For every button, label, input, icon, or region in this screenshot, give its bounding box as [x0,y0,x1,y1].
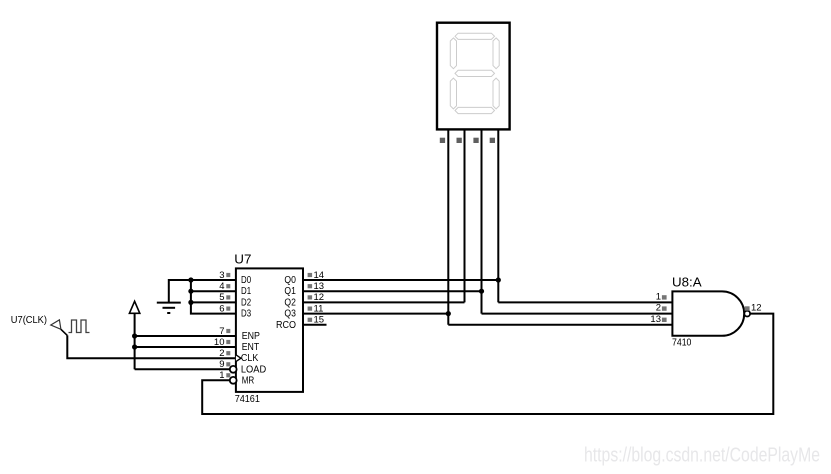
ground [157,303,181,313]
svg-text:5: 5 [219,292,224,303]
svg-text:13: 13 [650,314,661,325]
junction D2 [188,300,193,305]
wire RCO stub pin 15 [303,324,327,326]
U7 pin square 1 [226,373,230,377]
svg-text:12: 12 [314,292,325,303]
svg-text:U7(CLK): U7(CLK) [11,315,47,326]
wire Q1 horizontal from U7 pin 13 [303,290,482,292]
svg-text:ENP: ENP [242,331,260,342]
display segment b [493,38,499,69]
wire Q3 to U8 pin 13 [448,324,672,326]
U7 MR bubble [230,377,237,384]
U7 pin square 5 [226,295,230,299]
svg-text:3: 3 [219,270,224,281]
display segment f [450,38,456,69]
svg-text:ENT: ENT [242,342,260,353]
wire D0 to ground [169,280,236,303]
U8 pin square 1 [662,295,667,299]
svg-text:1: 1 [219,370,224,381]
wire MR feedback from U8 output [202,314,773,414]
wire Q0 vertical to display [497,129,499,302]
wire Q1 to U8 pin 2 [482,313,673,315]
svg-text:13: 13 [314,281,325,292]
IC U7 body [236,268,303,392]
gate U8 output bubble [744,311,750,317]
svg-text:2: 2 [656,303,661,314]
svg-text:RCO: RCO [276,320,296,331]
svg-text:MR: MR [242,375,255,386]
wire Q3 horizontal from U7 pin 11 [303,313,448,315]
power arrow VCC [129,301,139,369]
svg-text:D3: D3 [241,309,251,320]
svg-text:2: 2 [219,348,224,359]
junction Q0 [496,277,501,282]
wire Q0 horizontal from U7 pin 14 [303,279,498,281]
wire D2 [191,301,236,303]
display DS1 body [437,23,510,130]
display segment d [455,107,495,113]
U7 LOAD bubble [230,366,237,373]
wire Q0 to U8 pin 1 [498,301,672,303]
svg-text:10: 10 [214,337,225,348]
U7 pin square 7 [226,329,230,333]
wire Q1 vertical to display [481,129,483,313]
U8 pin square 12 [745,306,750,310]
svg-text:4: 4 [219,281,224,292]
svg-text:7: 7 [219,326,224,337]
svg-text:LOAD: LOAD [241,364,266,375]
U7 pin square 3 [226,273,230,277]
svg-text:https://blog.csdn.net/CodePlay: https://blog.csdn.net/CodePlayMe [584,445,820,467]
U7 pin square 4 [226,284,230,288]
display pin square 4 [490,138,495,143]
U7 pin square 12 [308,295,313,299]
svg-text:9: 9 [219,359,224,370]
U7 pin square 14 [308,273,313,277]
U7 pin square 10 [226,340,230,344]
svg-text:Q3: Q3 [284,309,296,320]
U8 pin square 2 [662,306,667,310]
display pin square 3 [473,138,478,143]
junction Q3 [446,311,451,316]
display segment e [450,78,456,109]
display segment c [493,78,499,109]
svg-text:7410: 7410 [672,338,692,349]
wire Q2 vertical to display [464,129,466,302]
wire CLK [67,335,236,358]
svg-text:15: 15 [314,315,325,326]
clock pulse waveform [69,320,90,333]
junction ENT [132,344,137,349]
junction ENP [132,333,137,338]
U7 pin square 13 [308,284,313,288]
U7 pin square 15 [308,318,313,322]
svg-text:12: 12 [751,303,762,314]
wire D1 [191,290,236,292]
wire LOAD [135,368,230,370]
wire Q3 vertical to display [447,129,449,324]
gate U8 body [672,291,744,335]
svg-text:U8:A: U8:A [672,276,702,290]
U7 pin square 9 [226,362,230,366]
svg-text:14: 14 [314,270,325,281]
wire Q2 horizontal from U7 pin 12 [303,301,465,303]
U8 pin square 13 [662,318,667,322]
display pin square 2 [457,138,462,143]
svg-text:74161: 74161 [235,394,261,405]
svg-text:D2: D2 [241,297,251,308]
junction D0 [188,277,193,282]
svg-text:6: 6 [219,303,224,314]
U7 pin square 2 [226,351,230,355]
svg-text:U7: U7 [234,253,251,267]
wire ENP [135,335,236,337]
wire D3 [191,280,236,314]
svg-text:D0: D0 [241,275,251,286]
svg-text:11: 11 [314,303,324,314]
junction D1 [188,289,193,294]
svg-text:Q0: Q0 [284,275,296,286]
svg-text:CLK: CLK [241,353,259,364]
svg-text:D1: D1 [241,286,251,297]
U7 pin square 11 [308,307,313,311]
svg-text:1: 1 [656,292,661,303]
svg-text:Q1: Q1 [284,286,296,297]
svg-text:Q2: Q2 [284,297,296,308]
display segment g [455,70,495,76]
display pin square 1 [440,138,445,143]
junction Q1 [479,289,484,294]
display segment a [455,33,495,39]
U7 pin square 6 [226,307,230,311]
wire ENT [135,346,236,348]
clock source symbol [51,320,68,336]
U7 CLK edge triangle [236,355,241,362]
